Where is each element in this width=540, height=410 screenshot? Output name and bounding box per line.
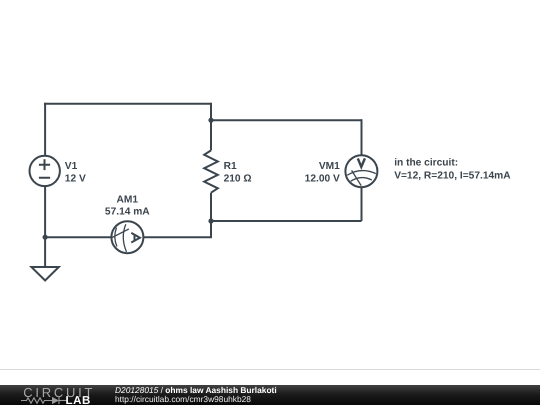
svg-text:AM1: AM1: [117, 194, 139, 205]
wire branch bottom horizontal from voltmeter: [211, 220, 362, 222]
footer black bar: [0, 385, 540, 406]
svg-text:12 V: 12 V: [65, 174, 86, 185]
wire branch top horizontal to voltmeter: [211, 119, 362, 121]
wire V1 bottom stub: [44, 186, 46, 238]
wire voltmeter top stub: [361, 119, 363, 155]
svg-text:VM1: VM1: [319, 161, 340, 172]
resistor R1: [204, 150, 218, 192]
svg-text:12.00 V: 12.00 V: [305, 174, 340, 185]
svg-text:V1: V1: [65, 161, 78, 172]
voltmeter VM1: [345, 155, 377, 187]
node junction bottom (R1 / VM1 branch): [208, 218, 213, 223]
wire right vertical top stub (corner to R1 top): [210, 103, 212, 151]
svg-text:V=12, R=210, I=57.14mA: V=12, R=210, I=57.14mA: [394, 171, 511, 182]
wire R1 bottom stub down to corner and left to ammeter: [143, 193, 211, 238]
ground symbol: [31, 237, 58, 280]
CircuitLab logo: [18, 380, 118, 405]
wire ammeter left to ground node: [45, 236, 111, 238]
svg-text:R1: R1: [224, 161, 237, 172]
ammeter letter A: [131, 233, 140, 243]
voltmeter letter V: [358, 158, 365, 167]
svg-text:210 Ω: 210 Ω: [224, 174, 252, 185]
footer meta line 1: [115, 386, 277, 394]
node junction top (R1 / VM1 branch): [208, 118, 213, 123]
wire top-left vertical (V1 top to corner): [44, 103, 46, 156]
svg-text:in the circuit:: in the circuit:: [394, 157, 458, 168]
svg-text:LAB: LAB: [66, 395, 91, 405]
svg-text:57.14 mA: 57.14 mA: [105, 207, 150, 218]
footer divider rule: [0, 369, 540, 370]
logo resistor-diode squiggle: [21, 397, 67, 404]
voltage source V1: [30, 156, 60, 186]
node ground junction: [43, 235, 48, 240]
wire voltmeter bottom stub: [361, 188, 363, 222]
ammeter AM1: [111, 221, 143, 253]
wire top horizontal: [44, 103, 211, 105]
footer meta line 2: [115, 395, 251, 403]
